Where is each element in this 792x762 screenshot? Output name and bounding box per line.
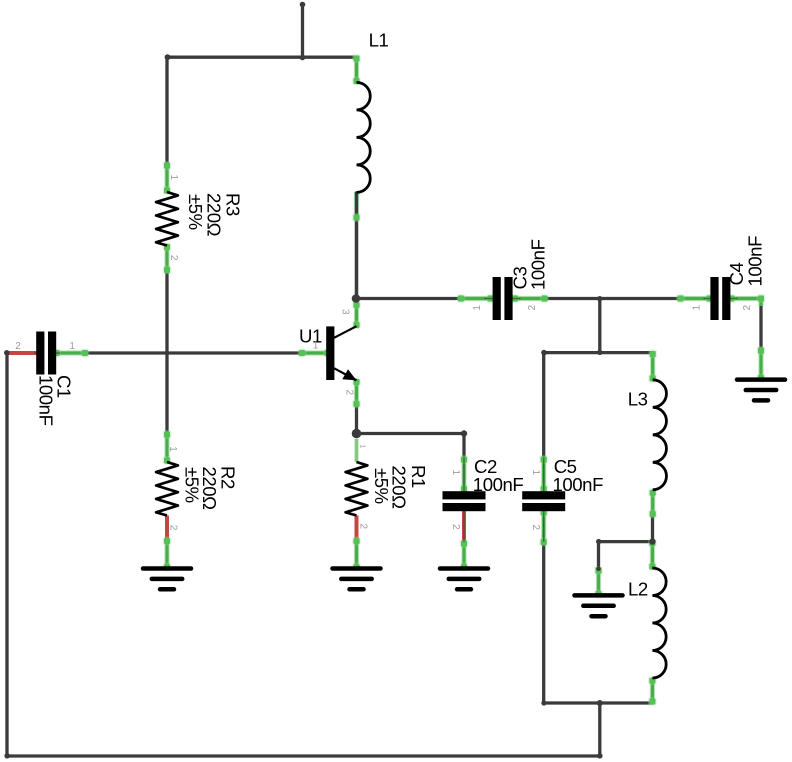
resistor R3	[156, 192, 178, 246]
lead C1.1 stub	[55, 352, 60, 354]
capacitor C2 plates	[443, 491, 486, 511]
node gnd pin start	[596, 567, 601, 572]
pin C3.2	[511, 294, 549, 303]
svg-text:2: 2	[15, 341, 21, 352]
pin U1.3 collector	[352, 301, 361, 330]
pin R3.2	[163, 243, 172, 275]
node emitter junction	[352, 429, 362, 439]
resistor R1	[346, 462, 368, 516]
pin C3.1	[457, 294, 495, 303]
ground R1	[333, 569, 381, 590]
pin C4.2 corner stub	[757, 294, 766, 306]
red stub C2 pin2	[462, 511, 466, 543]
wire C3 to C4	[546, 297, 680, 300]
wire C1 to base	[86, 351, 303, 354]
pin number labels	[15, 175, 753, 531]
wire tank top horizontal	[544, 351, 653, 354]
svg-text:±5%: ±5%	[185, 194, 206, 230]
svg-text:1: 1	[313, 341, 319, 352]
junction blob on pin L1.2	[352, 213, 361, 222]
pin L2.2	[648, 676, 657, 706]
pin C4.2	[727, 294, 761, 303]
capacitor C4 plates	[710, 277, 730, 320]
capacitor C1 plates	[36, 332, 56, 375]
transistor U1	[326, 326, 356, 380]
node tank top-left corner	[541, 350, 547, 356]
capacitor thin lead cores	[34, 299, 738, 543]
svg-text:1: 1	[450, 470, 461, 476]
pin R2.2 ground lead	[163, 537, 172, 572]
node top supply end	[300, 2, 306, 8]
inductor L1	[357, 82, 371, 192]
red stub C1 pin2	[8, 351, 38, 355]
pin L3.1	[648, 350, 657, 383]
wire emitter to node	[355, 404, 358, 434]
node L2 bottom-left corner	[541, 700, 546, 705]
lead C5.1	[543, 458, 545, 492]
pin C1.1	[52, 349, 89, 358]
svg-text:1: 1	[167, 446, 178, 452]
wire C5 bottom vertical	[542, 542, 545, 703]
svg-text:2: 2	[343, 390, 354, 396]
svg-text:U1: U1	[299, 326, 322, 347]
node C1 left corner	[4, 350, 10, 356]
svg-text:±5%: ±5%	[181, 467, 202, 503]
svg-text:R3: R3	[223, 193, 244, 216]
wire bottom rail	[7, 754, 600, 757]
wire L1 bottom to collector node	[355, 192, 358, 299]
resistor R2	[156, 462, 178, 516]
svg-text:L3: L3	[628, 388, 648, 409]
svg-text:2: 2	[530, 525, 541, 531]
svg-text:L1: L1	[369, 29, 389, 50]
lead C3.2 stub	[513, 298, 521, 300]
svg-text:100nF: 100nF	[473, 474, 524, 495]
lead C3.1 stub	[485, 298, 493, 300]
node bottom-left corner	[4, 753, 10, 759]
svg-text:L2: L2	[628, 578, 648, 599]
svg-text:1: 1	[69, 341, 75, 352]
svg-text:1: 1	[530, 470, 541, 476]
svg-text:2: 2	[357, 524, 368, 530]
node output T top	[597, 296, 602, 301]
pin U1.1 base	[298, 349, 332, 358]
wire L3/L2 junction to ground corner	[599, 540, 653, 543]
svg-text:100nF: 100nF	[527, 239, 548, 290]
pin R3.1	[163, 161, 172, 195]
svg-text:100nF: 100nF	[745, 236, 766, 287]
svg-text:2: 2	[168, 525, 179, 531]
lead C2.1	[463, 458, 465, 492]
wire L3 bottom to junction	[651, 515, 654, 542]
pin C4 ground lead	[757, 346, 766, 382]
lead C4.2 stub	[730, 298, 738, 300]
wire emitter node to C2	[357, 432, 465, 435]
pin C2.1	[460, 455, 469, 493]
pin C2.2 ground lead	[460, 539, 469, 571]
svg-text:±5%: ±5%	[371, 468, 392, 504]
wire C5 top vertical	[542, 353, 545, 458]
pin ground lead tank	[594, 566, 603, 598]
pin L2.1	[648, 539, 657, 571]
wire R3 bottom to R2 top	[165, 271, 168, 434]
node C2 corner	[461, 430, 467, 436]
svg-text:R1: R1	[408, 465, 429, 488]
svg-text:1: 1	[359, 445, 366, 449]
wire R3 top vertical	[165, 57, 168, 165]
lead C5.2	[543, 511, 545, 543]
pin R1.1 (pale)	[354, 439, 359, 462]
svg-text:1: 1	[472, 305, 483, 311]
svg-text:3: 3	[340, 309, 351, 315]
node L3/L2 junction	[649, 538, 655, 544]
svg-text:2: 2	[742, 305, 753, 311]
inductor L2	[652, 568, 666, 678]
node bottom T	[597, 700, 603, 706]
pin R1.2 ground lead	[352, 537, 361, 572]
pin L1.1	[352, 54, 361, 85]
lead C1.2 stub	[34, 352, 38, 354]
node gnd corner	[596, 539, 601, 544]
lead C2.2	[463, 511, 465, 543]
red stub R2 pin2	[165, 516, 169, 540]
wire C4 to ground	[759, 299, 762, 351]
pin U1.2 emitter	[352, 378, 361, 409]
wire output drop	[598, 299, 601, 353]
inductor L3	[653, 380, 667, 490]
svg-text:2: 2	[527, 305, 538, 311]
pin C4.1	[676, 294, 714, 303]
wire top horizontal	[167, 56, 355, 59]
pin C5.1	[539, 455, 548, 493]
node top-left corner	[165, 54, 171, 60]
wire bottom riser	[598, 703, 601, 756]
pin L1.2	[354, 192, 359, 218]
red stub R1 pin2	[355, 516, 359, 540]
pin C5.2	[539, 508, 548, 546]
svg-text:100nF: 100nF	[36, 375, 57, 426]
ground R2	[143, 569, 191, 590]
node output T bottom	[597, 350, 602, 355]
wire collector node to C3	[357, 297, 460, 300]
wire overdraw on pin L1.2	[355, 192, 358, 299]
capacitor C5 plates	[522, 491, 565, 511]
pin R2.1	[163, 430, 172, 465]
wire top vertical supply stub	[301, 4, 304, 59]
svg-text:2: 2	[450, 524, 461, 530]
svg-text:1: 1	[691, 305, 702, 311]
ground C2	[440, 569, 488, 590]
wire C2 top vertical	[462, 434, 465, 459]
capacitor C3 plates	[493, 277, 513, 320]
wire left rail	[5, 353, 8, 756]
svg-text:100nF: 100nF	[553, 474, 604, 495]
node bottom-right corner	[597, 753, 603, 759]
pin L3.2	[648, 488, 657, 518]
ground tank	[575, 595, 623, 616]
wire ground drop	[597, 542, 600, 569]
ground C4	[737, 380, 785, 401]
node collector junction	[352, 294, 361, 303]
lead C4.1 stub	[704, 298, 712, 300]
svg-text:1: 1	[168, 175, 179, 181]
svg-text:2: 2	[168, 255, 179, 261]
wire L2 bottom horizontal	[544, 701, 653, 704]
